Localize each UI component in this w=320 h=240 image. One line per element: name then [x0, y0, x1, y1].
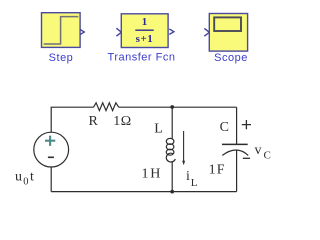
- Transfer Fcn fraction bar: [135, 29, 153, 31]
- svg-text:L: L: [154, 122, 163, 137]
- Transfer Fcn input port: [116, 28, 121, 36]
- Transfer Fcn block body: [121, 14, 168, 48]
- wire: capacitor branch top: [236, 107, 238, 144]
- wire: capacitor branch bottom: [236, 150, 238, 192]
- svg-text:R: R: [89, 114, 99, 129]
- svg-text:Scope: Scope: [214, 52, 248, 64]
- Step block body: [42, 13, 81, 48]
- svg-text:Ω: Ω: [121, 114, 131, 129]
- wire: source bottom to bottom-left corner: [50, 167, 52, 192]
- node: inductor top junction dot: [170, 105, 174, 109]
- svg-text:1: 1: [142, 167, 149, 182]
- inductor L coil: [166, 138, 175, 162]
- node: inductor bottom junction dot: [170, 190, 174, 194]
- svg-text:C: C: [220, 120, 229, 135]
- Step block icon (step waveform): [44, 17, 79, 44]
- Scope input port: [204, 28, 209, 36]
- wire: inductor branch bottom: [171, 161, 173, 192]
- wire: bottom rail: [51, 191, 236, 193]
- Scope block body: [209, 14, 247, 52]
- Step output port: [80, 29, 84, 34]
- Transfer Fcn output port: [169, 29, 174, 34]
- svg-text:H: H: [150, 167, 160, 182]
- svg-text:Transfer Fcn: Transfer Fcn: [108, 52, 176, 64]
- svg-text:Step: Step: [49, 52, 74, 64]
- current arrow iL: [182, 131, 185, 165]
- capacitor C curved plate: [222, 150, 248, 155]
- svg-text:1: 1: [142, 16, 148, 28]
- resistor R: [94, 103, 119, 111]
- wire: top left segment (source top to resistor): [51, 107, 93, 132]
- svg-text:1: 1: [209, 162, 216, 177]
- svg-text:s+1: s+1: [136, 33, 154, 45]
- wire: inductor branch top: [171, 107, 173, 138]
- voltage source u0t circle: [34, 132, 69, 167]
- svg-text:F: F: [217, 162, 225, 177]
- voltage source plus sign: [45, 136, 55, 146]
- voltage source minus sign: [48, 156, 54, 158]
- svg-text:1: 1: [113, 114, 120, 129]
- capacitor plus sign: [242, 120, 251, 129]
- capacitor minus sign: [243, 157, 250, 159]
- wire: top middle segment (resistor to top-right corner): [119, 106, 237, 108]
- capacitor C top plate: [222, 143, 248, 145]
- Scope screen: [214, 17, 241, 31]
